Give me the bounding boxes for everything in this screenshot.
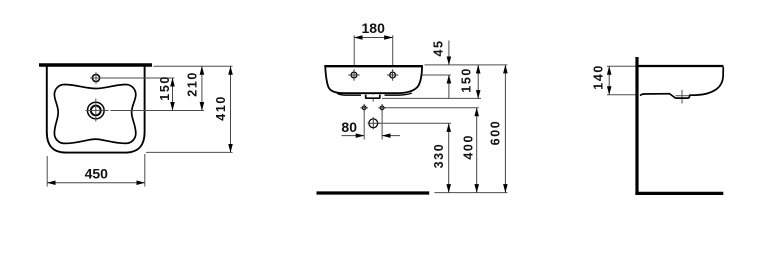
svg-text:450: 450: [85, 165, 109, 181]
svg-text:400: 400: [461, 134, 475, 160]
svg-text:80: 80: [341, 119, 357, 135]
svg-text:150: 150: [460, 67, 474, 93]
svg-text:45: 45: [432, 39, 446, 56]
svg-text:210: 210: [185, 71, 199, 97]
svg-text:140: 140: [592, 64, 606, 90]
svg-text:410: 410: [214, 95, 228, 121]
svg-text:150: 150: [158, 75, 172, 101]
svg-text:330: 330: [432, 143, 446, 169]
svg-text:600: 600: [489, 120, 503, 146]
svg-text:180: 180: [362, 20, 386, 36]
